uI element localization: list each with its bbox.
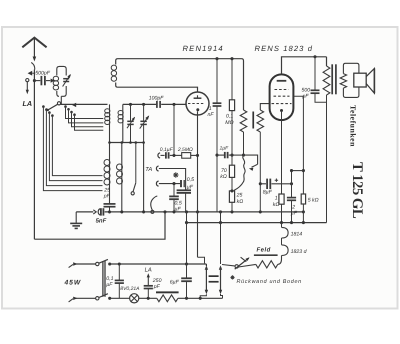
wire to R 2.5M: [170, 154, 182, 156]
svg-text:8µF: 8µF: [263, 190, 273, 196]
svg-text:Telefunken: Telefunken: [349, 105, 358, 147]
capacitor 6uF: [186, 212, 188, 278]
jack J3: [156, 181, 158, 186]
svg-text:70: 70: [221, 168, 227, 174]
wire 1nF down: [216, 106, 218, 212]
svg-text:kΩ: kΩ: [273, 202, 280, 208]
star mark: [173, 172, 178, 177]
trimmer CV3: [143, 104, 145, 121]
svg-text:2,5MΩ: 2,5MΩ: [177, 147, 193, 153]
coil L2 antenna: [109, 104, 111, 142]
svg-text:LA: LA: [23, 99, 33, 108]
wire AC bottom: [76, 297, 96, 299]
capacitor 0.1uF: [165, 152, 167, 158]
switch S3a: [96, 262, 99, 265]
tube V2 RENS1823d: [270, 74, 294, 120]
wire C1 to L1: [46, 80, 50, 82]
wire screen node: [292, 170, 304, 172]
svg-text:pF: pF: [103, 194, 111, 200]
capacitor 0.1uF mains: [118, 264, 120, 280]
wire coil bottoms: [110, 142, 144, 144]
transformer TR secondary: [220, 212, 222, 264]
wire heater return: [198, 257, 205, 263]
coil L4 oscillator: [109, 143, 111, 204]
transformer T1 secondary: [340, 74, 346, 89]
svg-text:0,1: 0,1: [106, 276, 113, 282]
wire TA: [159, 169, 186, 191]
coil L5: [121, 143, 123, 212]
wire L1 to switch: [60, 96, 62, 104]
ground rail: [76, 211, 93, 213]
svg-text:250: 250: [152, 278, 162, 284]
svg-text:1823 d: 1823 d: [291, 249, 308, 255]
resistor 2.5Mohm: [182, 153, 191, 159]
capacitor 5nF: [100, 208, 102, 215]
capacitor 100pF: [156, 101, 158, 108]
svg-text:1: 1: [275, 196, 278, 202]
jack J2: [156, 166, 158, 171]
transformer TR core: [209, 275, 219, 277]
svg-text:500: 500: [302, 88, 311, 94]
svg-text:TA: TA: [145, 167, 152, 173]
LA contact arrow: [28, 71, 33, 76]
coil L3 grid: [122, 104, 124, 142]
svg-text:µF: µF: [291, 211, 298, 217]
LA terminal: [26, 79, 29, 82]
svg-text:REN1914: REN1914: [183, 44, 224, 53]
wire antenna down: [33, 70, 35, 240]
svg-text:1814: 1814: [291, 231, 303, 237]
resistor 70kohm: [229, 165, 234, 177]
svg-text:Rückwand und Boden: Rückwand und Boden: [237, 279, 302, 285]
capacitor to ground: [177, 189, 191, 191]
svg-text:pF: pF: [302, 94, 310, 100]
tube V1 REN1914: [186, 92, 209, 115]
capacitor 2uF: [291, 171, 293, 198]
svg-text:Feld: Feld: [257, 247, 271, 254]
resistor 1kohm: [279, 194, 284, 204]
shield bar: [252, 112, 254, 129]
capacitor 25pF: [104, 203, 116, 205]
capacitor C1 500pF: [40, 76, 42, 85]
svg-text:5nF: 5nF: [96, 217, 107, 224]
flexible lead: [234, 155, 245, 190]
capacitor 500pF tone: [314, 57, 316, 90]
svg-text:45W: 45W: [64, 279, 82, 286]
svg-text:100pF: 100pF: [149, 96, 165, 102]
capacitor 0.5uF lower: [173, 184, 175, 197]
svg-text:kΩ: kΩ: [220, 174, 227, 180]
wire switch to coil top: [61, 103, 108, 105]
wire to C1: [34, 80, 40, 82]
antenna switch: [31, 63, 35, 70]
svg-text:6µF: 6µF: [170, 280, 180, 286]
wire trimmer return: [143, 143, 145, 212]
resistor 0.1Mohm: [231, 59, 233, 100]
svg-text:0,1µF: 0,1µF: [160, 147, 174, 153]
trimmer CV2: [130, 104, 132, 121]
ballast resistor: [156, 291, 179, 293]
switch S1 pivot: [57, 102, 60, 105]
node trimmer tops: [129, 103, 132, 106]
potentiometer wiper: [222, 265, 235, 266]
connector break: [93, 210, 96, 214]
trimmer CV1: [63, 78, 69, 80]
svg-text:nF: nF: [208, 112, 215, 118]
jack J1: [158, 153, 160, 158]
wires left group to lower coil taps: [43, 107, 102, 191]
resistor R2 grid: [260, 104, 269, 110]
svg-text:T 125 GL: T 125 GL: [349, 162, 365, 219]
dial lamp 8V 0.21A: [130, 294, 139, 303]
svg-text:RENS 1823 d: RENS 1823 d: [255, 44, 314, 53]
wire 100pF to tube grid: [161, 103, 186, 105]
ground symbol: [75, 212, 77, 223]
resistor 25kohm: [229, 191, 234, 202]
feedback coil L6 loop: [116, 59, 244, 110]
wire anode top: [282, 57, 327, 75]
capacitor 1nF: [216, 59, 218, 103]
switch S3b: [96, 297, 99, 300]
hum tap wire: [244, 155, 258, 164]
speaker: [354, 73, 366, 87]
svg-text:500pF: 500pF: [35, 70, 51, 76]
transformer T1 core: [331, 64, 333, 94]
resistor 5kohm: [301, 194, 305, 204]
wire chassis return: [34, 212, 165, 239]
svg-text:2: 2: [291, 204, 295, 210]
svg-text:25: 25: [103, 188, 110, 194]
svg-text:0,5: 0,5: [187, 177, 194, 183]
switch contacts left group: [42, 105, 45, 108]
svg-text:LA: LA: [145, 267, 152, 273]
transformer T1 primary: [326, 57, 328, 66]
antenna: [22, 38, 46, 48]
wire grid top: [123, 103, 156, 105]
svg-text:µF: µF: [175, 206, 182, 212]
svg-text:5 kΩ: 5 kΩ: [308, 197, 319, 203]
heater winding 1823d: [281, 238, 283, 245]
wire B+ line: [187, 222, 327, 224]
resistor R1 anode: [240, 110, 247, 132]
wire J1 branch to grid: [173, 104, 175, 155]
wire screen: [293, 96, 303, 194]
svg-text:kΩ: kΩ: [237, 199, 244, 205]
switch contacts right group: [64, 105, 67, 108]
transformer TR primary: [205, 264, 207, 266]
capacitor 1uF: [217, 154, 224, 156]
node anode rail: [215, 57, 218, 60]
capacitor coupling star: [180, 180, 182, 187]
ground rail main: [105, 211, 304, 213]
wires right group to upper coil taps: [66, 107, 104, 119]
Rueckwand label: [230, 275, 234, 279]
heater winding 1814: [281, 223, 283, 228]
switch link: [102, 261, 104, 297]
svg-text:pF: pF: [153, 284, 161, 290]
capacitor 8uF: [260, 183, 266, 185]
wire cathode: [197, 111, 199, 257]
node antenna-cap: [33, 79, 36, 82]
svg-text:25: 25: [236, 193, 243, 199]
wire AC top: [76, 263, 96, 265]
antenna tuned circuit box: [57, 66, 66, 96]
svg-text:µF: µF: [106, 282, 113, 288]
coil L1: [53, 76, 58, 81]
svg-text:1µF: 1µF: [220, 145, 230, 151]
wire cathode: [281, 112, 283, 194]
switch S1 blade: [49, 104, 58, 109]
switch S2: [135, 143, 137, 183]
svg-text:8V0,21A: 8V0,21A: [120, 286, 140, 292]
patch cord: [151, 196, 158, 210]
